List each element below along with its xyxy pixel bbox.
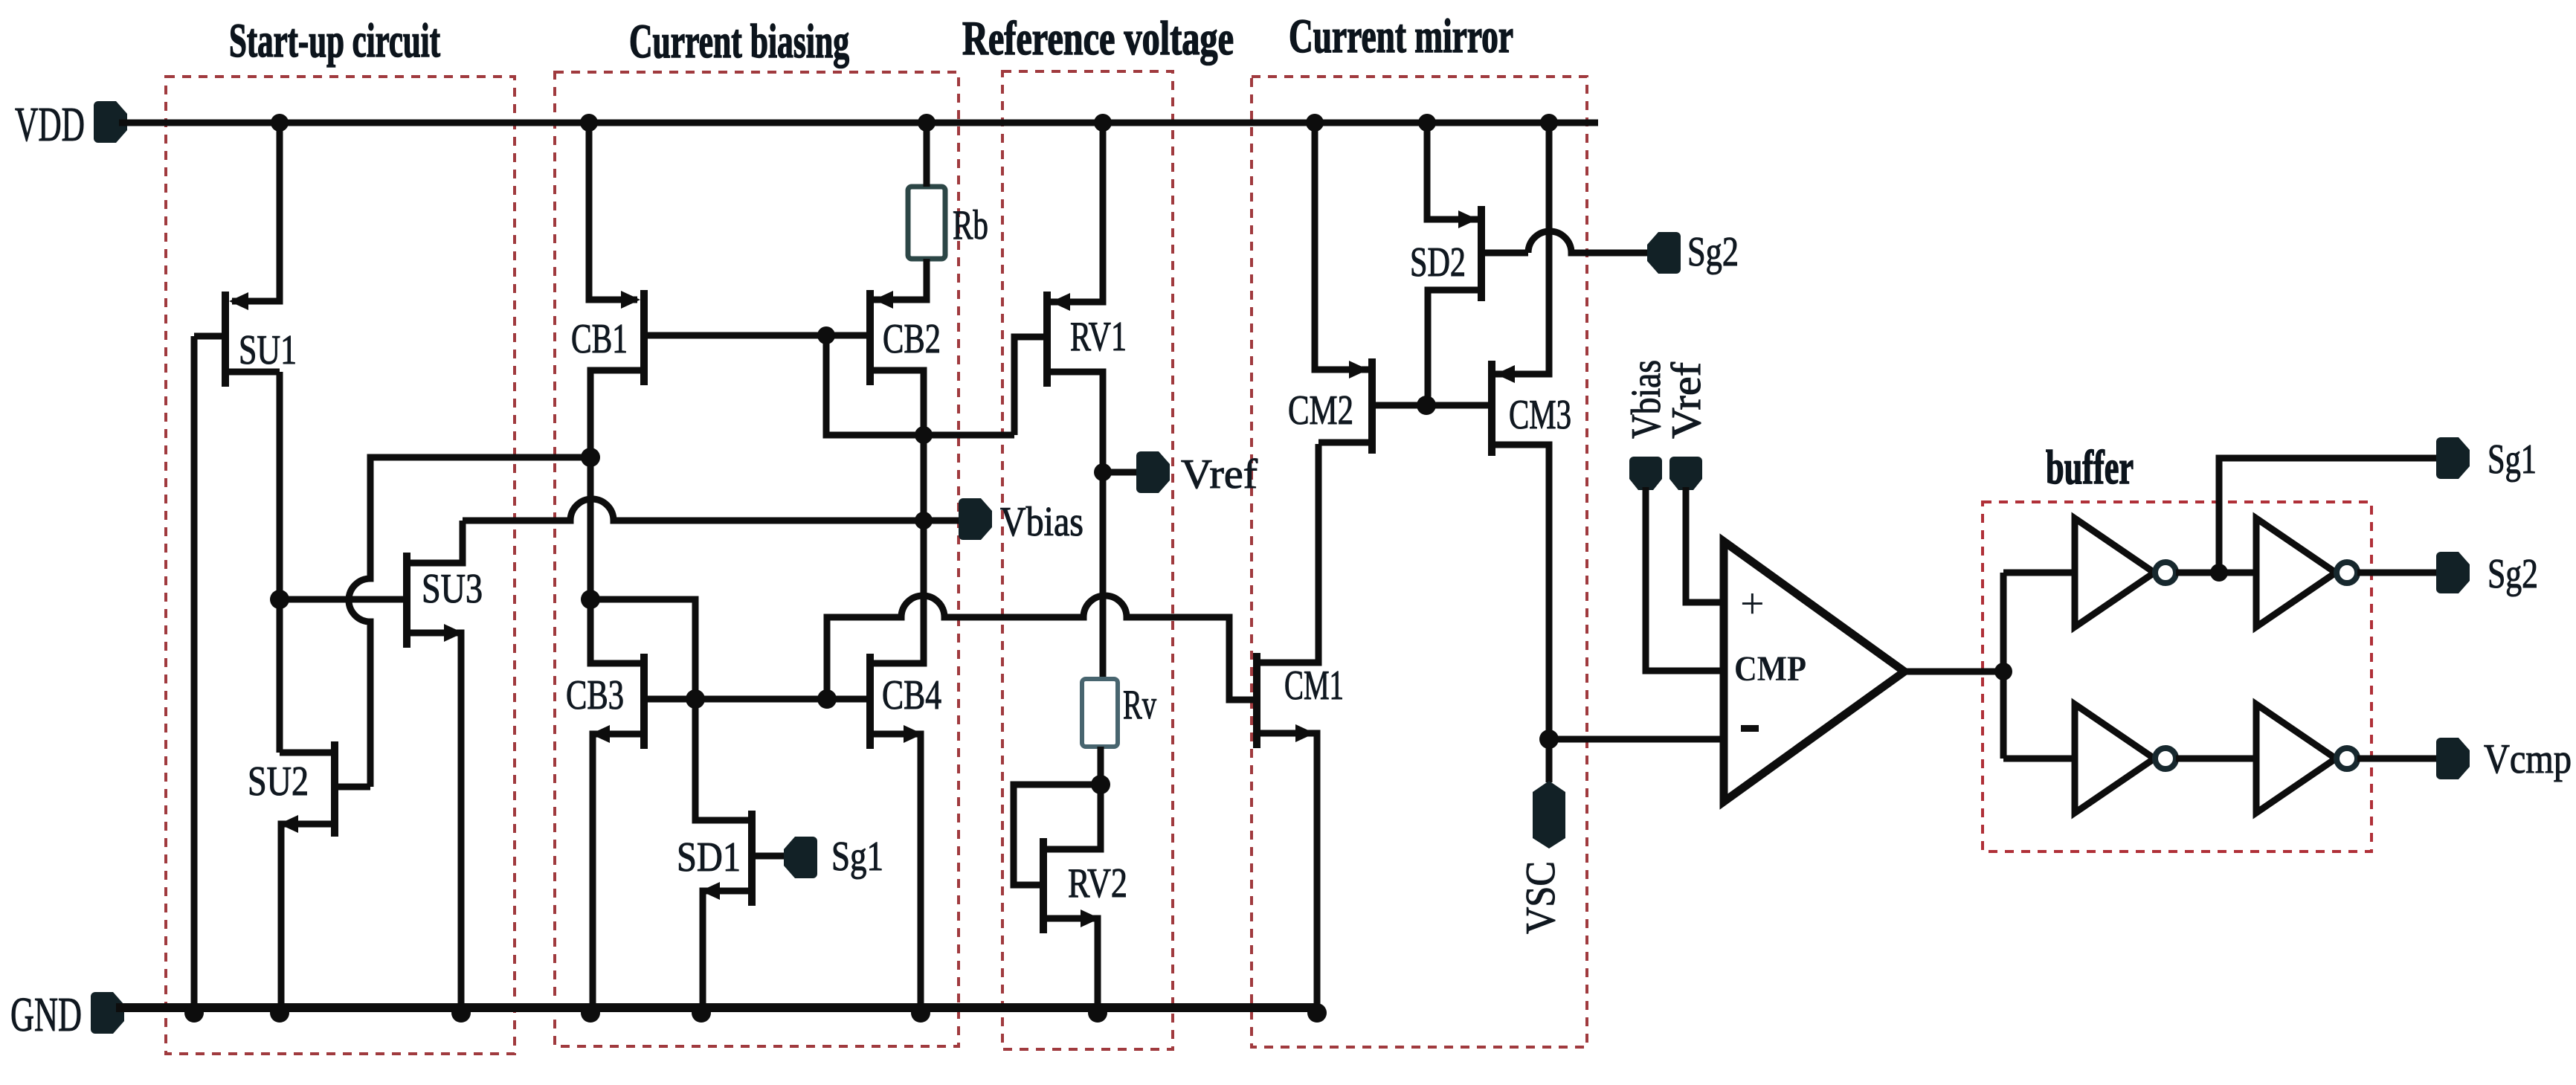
wire: Rb to CB2 drain	[874, 259, 927, 300]
arrow of CB2 (source marker)	[874, 291, 893, 309]
VDD pad	[94, 101, 127, 143]
Vref pad	[1136, 451, 1170, 493]
node: VDD junction at Rb	[918, 114, 936, 132]
svg-text:RV2: RV2	[1068, 860, 1127, 907]
svg-text:SD2: SD2	[1410, 239, 1466, 286]
svg-text:CMP: CMP	[1734, 649, 1806, 689]
node: gate line tap	[817, 326, 835, 344]
svg-text:buffer: buffer	[2046, 441, 2134, 495]
node: GND junction at CB4 source	[911, 1003, 930, 1023]
label - (minus input)	[1741, 725, 1759, 732]
node: VDD junction at SU1	[271, 114, 289, 132]
node: buffer input	[1994, 663, 2012, 680]
node: Sg1 tap between U1 and U2	[2210, 564, 2228, 582]
transistor CB2	[870, 290, 924, 663]
svg-text:CB2: CB2	[883, 316, 941, 362]
svg-text:CM3: CM3	[1509, 392, 1571, 438]
node: SD2 source / CM2 CM3 gates	[1417, 396, 1436, 415]
VSC pad	[1533, 781, 1565, 849]
transistor SU3	[407, 521, 463, 1008]
svg-text:Rv: Rv	[1123, 682, 1156, 728]
transistor RV2	[1043, 838, 1098, 1008]
node: CB1 source tap	[581, 448, 600, 467]
wire: CM3 gate stub	[1426, 402, 1488, 409]
svg-text:GND: GND	[10, 988, 82, 1042]
wire: GND rail	[116, 1003, 1317, 1012]
wire: Vbias to comparator mid input	[1646, 487, 1724, 671]
arrow of SU1 (source marker)	[229, 292, 248, 310]
transistor CB4	[870, 654, 921, 1008]
node VSC: CM3 source / comparator minus	[1539, 730, 1559, 749]
dashed box: buffer	[1983, 502, 2371, 851]
transistor CM3	[1492, 123, 1549, 782]
wire: U2 to Sg2 pad	[2357, 570, 2448, 576]
node: VDD junction at CM3	[1540, 114, 1558, 132]
arrow of SD1 (source marker)	[701, 882, 720, 900]
node: VDD junction at RV1	[1094, 114, 1112, 132]
inverter U4	[2256, 704, 2357, 813]
svg-text:CB1: CB1	[571, 316, 628, 362]
wire: node A to SU3 gate	[280, 596, 403, 603]
wire: U3 to U4	[2176, 756, 2256, 762]
svg-text:SU1: SU1	[239, 327, 297, 373]
node: CB4 gate tap	[817, 689, 837, 709]
wire: U1 to U2	[2176, 570, 2256, 576]
svg-text:CB3: CB3	[566, 672, 624, 718]
transistor CB1	[589, 123, 644, 663]
svg-text:Vref: Vref	[1181, 451, 1258, 498]
svg-text:VDD: VDD	[15, 97, 85, 152]
node: VDD junction at CM2	[1306, 114, 1324, 132]
wire: Rv to RV2 drain	[1047, 747, 1101, 849]
Vbias pad	[959, 498, 992, 540]
inverter U3	[2075, 704, 2176, 813]
transistor CB3	[593, 654, 644, 1008]
wire: CB4 gate riser to CM1 gate with hops over CB2 and Vref lines	[827, 596, 1253, 700]
Vref pad (comparator input)	[1669, 457, 1702, 490]
dashed box: Reference voltage	[1002, 71, 1173, 1049]
arrow of CB1 (source marker)	[621, 291, 640, 309]
Sg1 pad at SD1 gate	[784, 837, 817, 878]
svg-text:Start-up circuit: Start-up circuit	[229, 14, 440, 68]
svg-text:+: +	[1740, 579, 1765, 628]
wire: to inverter U1	[2003, 570, 2075, 576]
svg-text:VSC: VSC	[1518, 861, 1564, 934]
arrow of RV1 (source marker)	[1051, 293, 1070, 311]
transistor SU1	[194, 123, 280, 387]
arrow of CB4 (source marker)	[904, 725, 923, 743]
arrow of SU2 (source marker)	[279, 815, 298, 833]
node: GND junction at RV2 source	[1088, 1003, 1107, 1023]
Sg1 pad (buffer output)	[2436, 437, 2470, 479]
wire: SU2 gate riser with hop over node-A wire	[349, 457, 590, 787]
svg-text:Rb: Rb	[953, 202, 988, 248]
wire: RV2 gate loop	[1014, 785, 1101, 885]
wire: comparator minus input	[1549, 736, 1724, 743]
wire: U4 to Vcmp pad	[2357, 756, 2448, 762]
Vcmp pad (buffer output)	[2436, 738, 2470, 779]
svg-text:SU3: SU3	[422, 566, 483, 612]
svg-text:SU2: SU2	[248, 759, 309, 805]
svg-text:Sg1: Sg1	[2488, 437, 2537, 483]
transistor RV1	[1014, 123, 1103, 679]
dashed box: Current biasing	[555, 72, 959, 1046]
svg-text:Current mirror: Current mirror	[1289, 10, 1513, 63]
resistor Rv	[1082, 679, 1118, 747]
svg-text:Sg2: Sg2	[1687, 229, 1739, 275]
svg-text:Vbias: Vbias	[1623, 360, 1669, 439]
svg-text:Current biasing: Current biasing	[629, 15, 849, 68]
wire: node B to CB3/CB4 gate rail	[590, 599, 695, 699]
node: VDD junction at SD2	[1418, 114, 1436, 132]
wire: to inverter U3	[2003, 756, 2075, 762]
wire: VDD to Rb	[924, 123, 930, 187]
inverter U2	[2256, 518, 2357, 627]
wire: VDD rail	[119, 120, 1598, 126]
Vbias pad (comparator input)	[1629, 457, 1662, 490]
arrow of RV2 (source marker)	[1081, 909, 1100, 927]
node: Vref tap	[1094, 463, 1112, 481]
transistor SD2	[1427, 123, 1528, 405]
node B: CB1 source / CB3 drain junction	[581, 590, 600, 609]
arrow of SU3 (source marker)	[444, 624, 463, 642]
svg-text:Sg2: Sg2	[2488, 551, 2538, 597]
op-amp CMP (comparator triangle)	[1724, 541, 1904, 802]
wire: Vref to comparator plus input	[1686, 487, 1724, 602]
svg-text:Vbias: Vbias	[1000, 499, 1083, 545]
node: Vbias junction at CB2 source line	[915, 512, 933, 529]
wire: gate tap down to diode connection	[826, 335, 1014, 435]
svg-text:SD1: SD1	[677, 834, 741, 880]
svg-text:Vcmp: Vcmp	[2484, 736, 2572, 782]
wire: comparator output	[1904, 669, 2003, 675]
transistor CM2	[1315, 123, 1425, 454]
wire: Vbias line from SU3 drain to Vbias pad with hop over CB1 source line	[463, 499, 970, 521]
node A: SU1 source / SU2 drain / SU3 gate	[270, 590, 289, 609]
wire: Sg1 line	[2219, 458, 2448, 573]
dashed box: Current mirror	[1252, 77, 1587, 1047]
node: RV2 diode node	[1091, 775, 1110, 794]
wire: SU1 gate to GND	[191, 336, 198, 1008]
wire: CB3/CB4 common gate	[648, 696, 866, 703]
arrow of CM3 (source marker)	[1495, 365, 1515, 383]
node: CB2 source / RV1 gate node	[915, 426, 933, 444]
node: GND junction at SU2 source	[270, 1003, 289, 1023]
arrow of CB3 (source marker)	[590, 725, 610, 743]
node: GND junction at SU1 gate	[184, 1003, 204, 1023]
wire: buffer input split	[2000, 573, 2007, 759]
resistor Rb	[908, 187, 945, 259]
transistor CM1	[1257, 444, 1318, 1008]
node: CB3 gate / SD1 drain tap	[686, 689, 705, 709]
svg-text:CB4: CB4	[882, 672, 941, 718]
dashed box: Start-up circuit	[166, 77, 515, 1054]
svg-text:CM2: CM2	[1288, 387, 1353, 434]
node: GND junction at SD1 source	[692, 1003, 711, 1023]
wire: CB1/CB2 common gate	[644, 332, 866, 339]
node: GND junction at CB3 source	[581, 1003, 600, 1023]
wire: SU1 source / SU2 drain vertical	[277, 372, 283, 753]
svg-text:RV1: RV1	[1070, 314, 1127, 360]
Sg2 pad at SD2 gate	[1647, 232, 1681, 274]
node: GND junction at SU3 source	[451, 1003, 471, 1023]
arrow of CM1 (source marker)	[1295, 724, 1315, 742]
svg-text:Sg1: Sg1	[831, 834, 883, 880]
arrow of SD2 (source marker)	[1458, 210, 1478, 228]
Sg2 pad (buffer output)	[2436, 552, 2470, 593]
wire: Vref stub	[1103, 469, 1151, 476]
inverter U1	[2075, 518, 2176, 627]
transistor SD1	[695, 699, 797, 1008]
wire: Sg2 line from SD2 gate with hop over CM3 drain	[1528, 231, 1661, 253]
transistor SU2	[280, 741, 370, 1008]
GND pad	[91, 992, 124, 1034]
svg-text:CM1: CM1	[1284, 663, 1344, 709]
svg-text:Vref: Vref	[1664, 362, 1710, 439]
svg-text:Reference voltage: Reference voltage	[962, 12, 1234, 65]
node: VDD junction at CB1	[580, 114, 598, 132]
node: GND junction at CM1 source	[1307, 1003, 1327, 1023]
arrow of CM2 (source marker)	[1349, 361, 1368, 379]
